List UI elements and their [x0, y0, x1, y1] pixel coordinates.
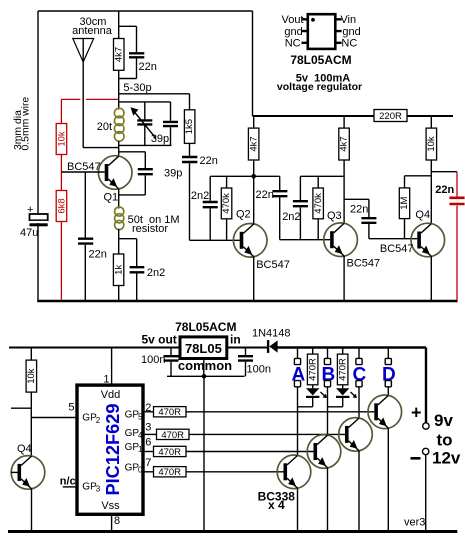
svg-text:Vout: Vout: [281, 14, 303, 26]
battery terminal plus: [411, 403, 429, 430]
svg-text:4: 4: [138, 431, 143, 440]
svg-text:Vss: Vss: [101, 500, 120, 512]
pad D top: [385, 348, 391, 365]
inductor 20t: [97, 108, 124, 141]
node tank top line: [119, 101, 171, 103]
wire 5v rail bottom: [9, 347, 180, 349]
wire top border: [38, 10, 253, 12]
resistor 10k bottom: [26, 348, 37, 456]
svg-text:39p: 39p: [164, 168, 182, 180]
resistor 470R LED B: [337, 348, 348, 389]
node 5-30p line: [119, 94, 190, 110]
LED B: [328, 388, 357, 407]
transistor Q4 BC547: [380, 209, 445, 300]
pad C top: [356, 348, 362, 365]
svg-text:in: in: [230, 332, 241, 346]
svg-text:10k: 10k: [57, 131, 68, 147]
svg-text:5: 5: [138, 413, 143, 422]
transistor BC338 C: [339, 418, 373, 531]
transistor BC338 B: [307, 435, 341, 531]
resistor 4k7 Q3: [339, 116, 350, 223]
capacitor 100n right: [238, 348, 271, 377]
IC PIC12F629: [77, 385, 143, 514]
transistor Q1 BC547: [61, 156, 132, 209]
svg-text:470R: 470R: [158, 407, 181, 418]
capacitor 22n input: [119, 26, 157, 78]
pad B top: [324, 348, 330, 365]
svg-text:1M: 1M: [399, 197, 410, 210]
svg-text:Q2: Q2: [236, 209, 251, 221]
svg-text:12v: 12v: [432, 449, 461, 468]
label 3mm dia 0.5mm wire: [13, 97, 32, 151]
svg-text:BC547: BC547: [256, 259, 290, 271]
node Q3 collector line: [300, 175, 344, 177]
svg-text:1N4148: 1N4148: [252, 327, 291, 339]
svg-text:A: A: [292, 365, 306, 386]
svg-text:100n: 100n: [247, 363, 271, 375]
pad D bottom: [385, 381, 391, 396]
wire common line: [167, 359, 245, 532]
capacitor 22n under 1k5: [182, 155, 218, 240]
svg-text:4k7: 4k7: [339, 136, 350, 151]
svg-text:22n: 22n: [350, 204, 368, 216]
svg-text:2: 2: [96, 416, 101, 425]
transistor BC338 A: [277, 455, 311, 531]
svg-text:22n: 22n: [256, 189, 274, 201]
svg-text:10k: 10k: [426, 136, 437, 152]
IC 78L05ACM SO-8 package: [277, 14, 362, 93]
capacitor tank fixed: [163, 102, 178, 145]
wire emitter node: [119, 238, 137, 240]
capacitor 22n Q2-Q3: [256, 176, 288, 239]
svg-text:Q1: Q1: [104, 192, 119, 204]
svg-text:common: common: [178, 358, 232, 373]
svg-text:47u: 47u: [20, 227, 38, 239]
svg-text:3: 3: [96, 485, 101, 494]
svg-text:2n2: 2n2: [191, 190, 209, 202]
svg-text:22n: 22n: [139, 61, 157, 73]
resistor 470R pin3: [143, 421, 345, 440]
wire Q4 base line: [369, 238, 417, 240]
svg-text:6k8: 6k8: [57, 198, 68, 213]
capacitor 2n2 at 1k: [130, 239, 166, 300]
wire 0v rail top circuit: [37, 300, 457, 303]
svg-text:1k5: 1k5: [184, 119, 195, 134]
svg-text:Q4: Q4: [415, 209, 430, 221]
svg-text:9v: 9v: [434, 411, 453, 430]
svg-text:39p: 39p: [151, 133, 169, 145]
svg-text:5v out: 5v out: [141, 332, 176, 346]
svg-text:n/c: n/c: [60, 475, 76, 487]
svg-text:22n: 22n: [200, 155, 218, 167]
wire collector stub: [11, 407, 31, 409]
svg-text:resistor: resistor: [132, 223, 168, 235]
svg-text:20t: 20t: [97, 121, 112, 133]
wire Q3 base line: [280, 239, 330, 241]
svg-text:BC547: BC547: [380, 243, 414, 255]
svg-text:Vin: Vin: [340, 14, 356, 26]
wire tank bottom: [119, 144, 172, 146]
resistor 1M: [399, 176, 431, 239]
resistor 10k red: [56, 124, 67, 155]
wire red to rail: [60, 222, 62, 301]
svg-text:D: D: [382, 365, 396, 386]
wire in rail: [227, 347, 268, 349]
capacitor 22n Q3-Q4: [344, 199, 376, 238]
svg-text:0: 0: [138, 466, 143, 475]
label BC338 x 4: [258, 490, 296, 512]
svg-text:0.5mm wire: 0.5mm wire: [21, 97, 32, 151]
svg-text:22n: 22n: [89, 249, 107, 261]
svg-text:2n2: 2n2: [147, 267, 165, 279]
capacitor 39p at Q1: [119, 152, 183, 195]
node Q2 collector: [210, 174, 280, 179]
svg-text:to: to: [437, 431, 453, 450]
resistor 470R LED A: [307, 348, 318, 389]
svg-text:x 4: x 4: [268, 498, 285, 512]
pad A bottom: [294, 381, 300, 456]
svg-text:470R: 470R: [161, 430, 184, 441]
capacitor 22n red output: [435, 172, 464, 300]
svg-text:1: 1: [138, 445, 143, 454]
resistor 470k Q2: [221, 176, 232, 240]
svg-text:Vdd: Vdd: [101, 389, 121, 401]
resistor 10k Q4: [426, 116, 437, 223]
svg-text:5: 5: [68, 402, 74, 414]
label 9v to 12v: [432, 411, 461, 468]
capacitor 100n left: [141, 348, 178, 377]
svg-text:gnd: gnd: [284, 26, 302, 38]
resistor 220R: [374, 110, 407, 123]
svg-text:2: 2: [145, 402, 151, 414]
transistor Q4 bottom BC547: [11, 443, 45, 531]
capacitor 39p variable: [131, 102, 170, 145]
wire left border: [37, 11, 39, 300]
wire red bias feed: [61, 99, 118, 123]
svg-text:1k: 1k: [113, 265, 124, 275]
svg-text:2n2: 2n2: [282, 211, 300, 223]
svg-text:3: 3: [145, 421, 151, 433]
svg-text:8: 8: [114, 515, 120, 527]
wire to red cap: [431, 171, 457, 173]
inductor 50t on 1M resistor: [115, 207, 180, 239]
svg-text:C: C: [353, 365, 367, 386]
wire GP3 stub: [63, 486, 77, 488]
svg-text:voltage regulator: voltage regulator: [277, 81, 362, 93]
resistor 470R pin7: [143, 457, 284, 478]
svg-text:5-30p: 5-30p: [123, 82, 151, 94]
svg-text:78L05ACM: 78L05ACM: [290, 53, 351, 67]
wire antenna join: [83, 147, 119, 149]
wire supply rail: [253, 115, 454, 117]
svg-text:470R: 470R: [158, 447, 181, 458]
svg-text:78L05: 78L05: [185, 341, 222, 356]
battery terminal minus: [411, 448, 429, 531]
wire supply drop right: [252, 11, 254, 116]
wire red mid: [60, 155, 62, 191]
svg-text:22n: 22n: [435, 184, 454, 196]
resistor 1k5: [184, 110, 195, 156]
wire pin8 Vss: [111, 514, 113, 531]
transistor Q3 BC547: [324, 210, 380, 300]
svg-text:470R: 470R: [158, 467, 181, 478]
svg-text:NC: NC: [285, 38, 301, 50]
diode 1N4148: [252, 327, 291, 353]
svg-text:PIC12F629: PIC12F629: [103, 403, 123, 495]
resistor 470R pin6: [143, 437, 314, 458]
svg-text:6: 6: [145, 437, 151, 449]
regulator 78L05: [180, 337, 227, 359]
resistor 4k7 input: [114, 11, 125, 110]
antenna: [72, 16, 113, 148]
capacitor 47u: [20, 204, 48, 239]
wire GP2 pin5: [31, 417, 77, 419]
pad B bottom: [324, 381, 330, 435]
svg-text:470R: 470R: [307, 358, 318, 381]
transistor BC338 D: [368, 395, 402, 531]
resistor 470k Q3: [313, 176, 324, 239]
svg-text:100n: 100n: [141, 354, 165, 366]
svg-text:+: +: [411, 403, 422, 423]
capacitor 2n2 Q2: [191, 176, 218, 240]
wire pin1 Vdd: [111, 348, 113, 386]
wire Q2 base line: [190, 239, 240, 241]
capacitor 22n at Q1 base: [78, 172, 107, 300]
wire coil to Q1: [118, 141, 120, 156]
svg-text:BC547: BC547: [347, 258, 381, 270]
svg-text:10k: 10k: [26, 368, 37, 384]
transistor Q2 BC547: [233, 176, 289, 300]
resistor 4k7 Q2: [248, 116, 259, 176]
svg-text:antenna: antenna: [72, 25, 113, 37]
svg-text:BC547: BC547: [67, 161, 101, 173]
svg-text:ver3: ver3: [404, 516, 425, 528]
svg-text:4k7: 4k7: [114, 47, 125, 62]
svg-text:gnd: gnd: [342, 26, 360, 38]
resistor 6k8 red: [56, 191, 67, 222]
svg-text:Q3: Q3: [327, 210, 342, 222]
svg-text:470k: 470k: [221, 193, 232, 214]
pad C bottom: [356, 381, 362, 418]
capacitor 2n2 Q3: [282, 176, 308, 239]
svg-text:470R: 470R: [337, 358, 348, 381]
resistor 1k: [113, 239, 124, 300]
svg-text:4k7: 4k7: [248, 136, 259, 151]
svg-text:470k: 470k: [313, 193, 324, 214]
svg-text:B: B: [322, 365, 336, 386]
svg-text:Q4: Q4: [17, 443, 32, 455]
svg-text:1: 1: [103, 374, 109, 386]
resistor 470R pin2: [143, 402, 374, 418]
pad A top: [294, 348, 300, 365]
svg-text:220R: 220R: [379, 111, 402, 122]
wire 0v rail bottom: [8, 530, 457, 533]
LED A: [298, 388, 327, 407]
svg-text:7: 7: [145, 457, 151, 469]
svg-text:78L05ACM: 78L05ACM: [175, 320, 236, 334]
svg-text:NC: NC: [341, 38, 357, 50]
